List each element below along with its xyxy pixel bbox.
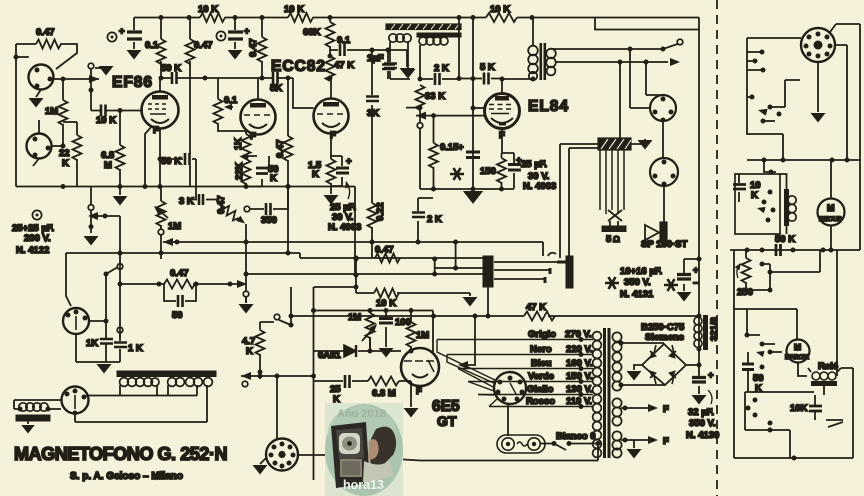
- capacitor 10K coupling: [91, 111, 143, 113]
- svg-text:350 V.: 350 V.: [624, 277, 651, 288]
- svg-text:Ω: Ω: [613, 234, 620, 244]
- DIN socket J2: [27, 134, 52, 159]
- box 10K: [735, 174, 780, 234]
- svg-text:3K: 3K: [367, 108, 379, 119]
- right top wiring: [747, 38, 801, 115]
- lower box M MARCIA: [734, 250, 797, 458]
- star bias mark: [450, 168, 464, 180]
- svg-text:0.22: 0.22: [375, 203, 386, 222]
- svg-text:N. 4131: N. 4131: [620, 289, 654, 300]
- bullseye 25+25: [32, 210, 41, 219]
- svg-text:10 K: 10 K: [96, 115, 116, 126]
- svg-text:0.47: 0.47: [248, 39, 259, 58]
- wire drops to plug: [543, 144, 569, 258]
- coil right group: [168, 378, 213, 387]
- socket aux B: [650, 158, 678, 186]
- resistor (grid leak): [433, 116, 435, 189]
- svg-text:250: 250: [737, 287, 753, 298]
- svg-text:50 K: 50 K: [161, 156, 181, 167]
- svg-text:100: 100: [395, 317, 411, 328]
- choke 321/6: [698, 316, 700, 365]
- wire row y268: [435, 267, 483, 269]
- resistor 1.5K cathode ECC82B: [330, 134, 332, 195]
- svg-text:F: F: [416, 386, 422, 397]
- svg-text:2 K: 2 K: [427, 214, 442, 225]
- wire EF86 plate: [160, 61, 161, 92]
- resistor 4.7K: [260, 322, 274, 372]
- wire row y284 (0.47/50 combo): [120, 283, 238, 285]
- capacitor 25uF block B (electrolytic): [234, 18, 236, 50]
- wire fuse left to selector: [507, 404, 509, 436]
- ground below J1: [36, 90, 41, 98]
- wire: ground bus drop to switch rows: [354, 187, 356, 274]
- electrolytic 0.15: [466, 152, 480, 158]
- wire 47K row: [291, 315, 699, 317]
- voltage selector socket: [494, 372, 526, 404]
- wire drops to head switch: [620, 62, 663, 138]
- svg-text:MARCIA: MARCIA: [785, 355, 810, 361]
- potentiometer 1M (EF86): [160, 187, 162, 230]
- capacitor 2K vertical: [418, 198, 433, 242]
- primary taps: [437, 340, 593, 407]
- svg-text:50: 50: [172, 310, 183, 321]
- box lower wiring: [745, 392, 814, 458]
- capacitor 25K: [330, 380, 368, 382]
- resistor 10K (first): [200, 13, 225, 22]
- svg-text:1M: 1M: [348, 312, 361, 323]
- svg-text:25 µF.: 25 µF.: [521, 159, 547, 170]
- capacitor 32uF: [698, 365, 700, 394]
- playback head block: [598, 138, 631, 150]
- wire ECC82A plate: [257, 78, 259, 100]
- capacitor 1K a: [100, 339, 113, 344]
- svg-text:10 K: 10 K: [490, 4, 510, 15]
- svg-text:+: +: [708, 370, 714, 381]
- svg-text:2 K: 2 K: [434, 63, 449, 74]
- wires from head coils: [390, 18, 459, 80]
- mechanics: head bar top: [117, 371, 216, 377]
- svg-text:10 K: 10 K: [284, 4, 304, 15]
- svg-text:50 K: 50 K: [161, 63, 181, 74]
- ground 6E5: [410, 386, 412, 407]
- input: resistor 0.47 top left: [16, 44, 77, 69]
- capacitor 100: [385, 311, 387, 348]
- resistor 1K cathode: [245, 132, 247, 134]
- wire bridge to B+: [686, 364, 699, 366]
- wire: input shield vertical: [15, 44, 17, 187]
- resistor 0.47 diagonal: [215, 199, 240, 221]
- resistor 6.8M: [119, 111, 121, 187]
- monitor switch + 4.7K: [290, 287, 292, 325]
- svg-text:5K: 5K: [270, 83, 282, 94]
- DIN socket J3: [63, 308, 89, 334]
- switch left (record/play): [117, 264, 123, 270]
- ground octal: [817, 62, 819, 112]
- potentiometer 1M: [369, 311, 371, 352]
- wires mechanics to socket S5: [241, 375, 314, 377]
- wire 6E5 plate: [432, 311, 434, 353]
- resistor 0.47 (screen): [189, 18, 191, 187]
- svg-text:200 V.: 200 V.: [24, 233, 51, 244]
- resistor 10K (third): [486, 13, 517, 22]
- svg-text:Giallo: Giallo: [527, 384, 554, 395]
- svg-text:N. 4122: N. 4122: [16, 245, 49, 256]
- svg-text:150: 150: [480, 166, 496, 177]
- svg-text:10K: 10K: [790, 403, 808, 414]
- resistor 33K: [416, 85, 425, 110]
- capacitor 25uF block A (electrolytic): [133, 18, 135, 50]
- resistor 6.8M: [368, 377, 399, 386]
- svg-text:+: +: [516, 155, 522, 166]
- svg-text:RECUP: RECUP: [819, 216, 842, 223]
- svg-text:1K: 1K: [86, 338, 98, 349]
- capacitor 25uF b: [513, 153, 515, 189]
- svg-text:Verde: Verde: [528, 371, 554, 382]
- output transformer T1: [532, 18, 534, 47]
- resistor 22K: [245, 154, 247, 187]
- speaker SP160-ST: [645, 225, 659, 240]
- svg-text:F: F: [153, 125, 159, 136]
- capacitor 16+16uF: [697, 257, 702, 262]
- capacitor 1K b: [117, 327, 123, 333]
- DIN socket J1: [29, 65, 54, 90]
- capacitor 3K: [190, 200, 217, 203]
- ground bridge left: [634, 365, 642, 370]
- svg-text:S. p. A. Geloso – Milano: S. p. A. Geloso – Milano: [70, 471, 183, 482]
- wire EL84 plate row: [502, 78, 533, 80]
- record head assembly top: [386, 24, 461, 30]
- resistor 10K + ground: [356, 292, 470, 294]
- ground right of 1uF: [388, 50, 407, 67]
- filament taps F: [621, 408, 648, 440]
- rectifier bridge B250-C75: [642, 344, 686, 385]
- wire J3 right + bottom: [76, 321, 120, 362]
- potentiometer 250: [746, 250, 770, 290]
- svg-text:16+16 µF.: 16+16 µF.: [620, 266, 662, 277]
- svg-text:3 K: 3 K: [179, 196, 194, 207]
- socket S5 (8 pin): [266, 439, 298, 471]
- svg-text:1M: 1M: [416, 330, 429, 341]
- erase head X: [608, 210, 622, 221]
- tube EF86: [142, 92, 179, 129]
- ground S5: [260, 458, 266, 464]
- svg-text:GT: GT: [437, 413, 457, 429]
- wire bullseye to socket J3: [66, 253, 71, 306]
- socket aux A: [650, 95, 676, 121]
- svg-text:1M: 1M: [45, 106, 58, 117]
- power transformer T2: [603, 328, 606, 458]
- resistor 0.47 (ECC82 A-B): [287, 78, 289, 187]
- socket J4: [62, 387, 89, 414]
- svg-text:Siemens: Siemens: [645, 332, 684, 343]
- svg-text:M: M: [104, 160, 112, 171]
- wire: J1 to grid: [53, 78, 100, 80]
- right wires: [830, 24, 860, 250]
- resistor 47K: [326, 56, 335, 81]
- bus y160: [747, 159, 860, 161]
- svg-text:hora13: hora13: [343, 478, 384, 492]
- svg-text:10 K: 10 K: [198, 4, 218, 15]
- svg-text:1M: 1M: [168, 221, 181, 232]
- svg-text:EL84: EL84: [528, 98, 569, 115]
- wire J2 to 1M: [51, 145, 63, 147]
- left bias coil: [19, 403, 48, 411]
- bullseye terminal A: [107, 32, 116, 41]
- wire x106 down: [105, 274, 107, 362]
- svg-text:Año 2018: Año 2018: [337, 408, 386, 420]
- tube ECC82 triode B: [314, 99, 349, 134]
- ground below cap B: [228, 50, 243, 60]
- svg-text:0.47: 0.47: [194, 40, 213, 51]
- bus y250: [730, 249, 860, 251]
- svg-text:33 K: 33 K: [425, 91, 445, 102]
- svg-text:−: −: [693, 278, 699, 289]
- resistor 0.47 on row: [371, 242, 373, 258]
- switch terminal + ground top (record): [88, 63, 94, 69]
- svg-text:68K: 68K: [303, 27, 321, 38]
- ground on bus: [119, 187, 121, 196]
- jack plug assembly: [483, 256, 493, 287]
- svg-text:F: F: [663, 436, 669, 447]
- wire vertical links switch matrix: [356, 242, 456, 293]
- capacitor 5K coupling: [262, 78, 314, 108]
- svg-text:321/6: 321/6: [709, 317, 720, 341]
- wire: heater stub top right: [595, 18, 699, 30]
- resistor 10K (second): [288, 13, 313, 22]
- ground right of head block: [631, 139, 645, 144]
- ground EL84 cathode: [463, 191, 483, 204]
- wire between aux sockets: [662, 121, 664, 158]
- motor M RECUP: [818, 199, 845, 226]
- wire row y274: [246, 273, 483, 275]
- svg-text:47 K: 47 K: [334, 60, 354, 71]
- svg-text:1µF: 1µF: [367, 53, 384, 64]
- watermark hora13: [325, 403, 403, 496]
- capacitor 1uF: [387, 50, 389, 79]
- svg-text:50 K: 50 K: [775, 234, 795, 245]
- contacts cluster: [745, 333, 750, 338]
- wire row y242 with arrow: [163, 241, 543, 243]
- svg-text:0.47: 0.47: [375, 245, 394, 256]
- wire row y310 (6E5 supply): [314, 310, 434, 312]
- resistor 0.47 ECC82A plate: [261, 18, 263, 79]
- transformer HV secondary wires to bridge: [621, 343, 665, 385]
- svg-text:Bleu: Bleu: [531, 358, 552, 369]
- svg-text:0.1: 0.1: [337, 35, 351, 46]
- svg-text:+: +: [693, 265, 699, 276]
- svg-text:47 K: 47 K: [526, 302, 546, 313]
- arrow + terminal right of combo: [237, 280, 247, 288]
- capacitor 50K screen bypass: [160, 159, 196, 200]
- capacitor 25uF cathode: [331, 156, 342, 186]
- resistor 0.1 grid ECC82A: [218, 79, 246, 133]
- svg-text:Relé: Relé: [818, 361, 838, 372]
- svg-text:+: +: [244, 26, 250, 37]
- svg-text:0.47: 0.47: [275, 140, 286, 159]
- ground under J3 bus: [103, 362, 105, 363]
- node dots on B+ bus: [159, 15, 164, 20]
- relay coil 1: [784, 189, 789, 226]
- svg-text:1K: 1K: [233, 138, 244, 150]
- svg-text:270 V.: 270 V.: [565, 329, 592, 340]
- fuse: [497, 435, 545, 453]
- tube 6E5: [401, 348, 439, 386]
- erase head bar: [602, 226, 626, 232]
- svg-text:160 V.: 160 V.: [566, 358, 593, 369]
- svg-text:0.47: 0.47: [36, 27, 55, 38]
- svg-text:0.15: 0.15: [440, 142, 459, 153]
- capacitor 2K: [420, 78, 459, 80]
- svg-text:22K: 22K: [234, 162, 245, 180]
- svg-text:0.47: 0.47: [170, 268, 189, 279]
- svg-text:K: K: [270, 173, 277, 184]
- wire x313 long vertical: [313, 287, 315, 480]
- divider dashed: [716, 0, 718, 496]
- capacitor 50K on bus: [776, 244, 781, 256]
- resistor 0.22: [368, 203, 377, 228]
- coil left group: [120, 378, 159, 387]
- svg-text:110 V.: 110 V.: [566, 396, 592, 407]
- svg-text:Rosso: Rosso: [526, 396, 555, 407]
- resistor 22K: [76, 122, 78, 187]
- svg-text:SP 160·ST: SP 160·ST: [641, 239, 687, 250]
- resistor 68K: [329, 18, 331, 57]
- resistor 1M input: [62, 79, 64, 146]
- svg-text:150 V.: 150 V.: [566, 371, 593, 382]
- svg-text:130 V.: 130 V.: [566, 384, 593, 395]
- svg-text:N. 4130: N. 4130: [686, 430, 719, 441]
- ground below cap A: [127, 50, 142, 60]
- tube EL84: [485, 94, 520, 129]
- capacitor 50K cathode bypass: [246, 156, 269, 187]
- selector spokes: [437, 340, 497, 407]
- wire: ground bus: [16, 186, 355, 188]
- 6E5 plate arrow: [458, 361, 468, 369]
- record/play switch column: [90, 187, 92, 205]
- svg-text:K: K: [62, 158, 69, 169]
- svg-text:MAGNETOFONO G. 252·N: MAGNETOFONO G. 252·N: [14, 444, 228, 464]
- wire bottom bus: [298, 455, 598, 461]
- svg-text:32 µF.: 32 µF.: [688, 407, 714, 418]
- svg-text:10 K: 10 K: [376, 298, 396, 309]
- ground mechanics: [27, 421, 29, 424]
- tube ECC82 triode A: [241, 100, 276, 135]
- svg-text:350: 350: [261, 215, 277, 226]
- wire row y287: [314, 286, 357, 288]
- wire cathode bottom: [420, 188, 514, 190]
- wire screen drop x473: [472, 18, 474, 190]
- svg-text:Nero: Nero: [530, 344, 552, 355]
- bottom bus right: [734, 457, 853, 459]
- svg-text:+: +: [346, 156, 352, 167]
- capacitor 50 parallel: [164, 284, 196, 301]
- svg-text:M: M: [827, 203, 835, 213]
- wire: top B+ bus: [134, 18, 699, 317]
- svg-text:N. 4003: N. 4003: [523, 181, 556, 192]
- svg-text:K: K: [751, 190, 758, 201]
- capacitor 350 + terminal: [244, 206, 250, 212]
- switch Bianco: [541, 444, 599, 461]
- capacitor 5K coupling to EL84: [459, 78, 502, 80]
- svg-text:K: K: [246, 346, 253, 357]
- svg-text:M: M: [794, 342, 801, 352]
- svg-text:220 V.: 220 V.: [566, 344, 593, 355]
- capacitor 3K on 0.22 line: [371, 50, 373, 203]
- ground ECC82B cathode: [324, 195, 339, 205]
- capacitor 50K 2: [742, 364, 754, 370]
- svg-text:K: K: [312, 169, 319, 180]
- diode 0A81: [314, 337, 371, 351]
- bullseye terminal B: [216, 31, 225, 40]
- wires transformer secondary to output terminals: [551, 44, 679, 63]
- wire to 6E5 grid: [370, 350, 401, 352]
- mechanics wiring: [86, 385, 207, 422]
- capacitor 0.1 (feedback): [330, 49, 388, 51]
- svg-text:Bianco 0: Bianco 0: [556, 431, 596, 442]
- ground under 100: [379, 348, 394, 358]
- svg-text:0.47: 0.47: [216, 196, 227, 215]
- right top: octal socket: [801, 28, 835, 62]
- svg-text:F: F: [663, 404, 669, 415]
- svg-text:1 K: 1 K: [128, 343, 143, 354]
- svg-text:350 V.: 350 V.: [689, 418, 716, 429]
- svg-text:+: +: [119, 26, 125, 37]
- svg-text:0A81: 0A81: [318, 350, 341, 361]
- wire row y253/258: [66, 253, 483, 258]
- resistor 1M (6E5 grid): [410, 311, 412, 352]
- wire ECC82B plate: [330, 78, 332, 99]
- capacitor 50K coupling EF86: [161, 77, 262, 79]
- svg-text:5 K: 5 K: [480, 62, 495, 73]
- svg-text:N. 4003: N. 4003: [328, 222, 361, 233]
- svg-text:Grigio: Grigio: [528, 329, 556, 340]
- svg-text:5: 5: [606, 234, 612, 245]
- wire plug to 47K line: [487, 287, 489, 316]
- arrow row to EL84 grid: [416, 115, 484, 117]
- resistor 0.1 (EF86 plate): [160, 18, 162, 40]
- svg-text:+: +: [458, 142, 464, 153]
- svg-text:0.1: 0.1: [145, 40, 159, 51]
- svg-text:ECC82: ECC82: [271, 58, 326, 75]
- wire x246 lower: [245, 297, 247, 303]
- svg-text:6.8 M: 6.8 M: [372, 388, 396, 399]
- wire EF86 cathode: [145, 126, 160, 187]
- svg-text:EF86: EF86: [112, 74, 153, 91]
- resistor 150: [502, 129, 515, 189]
